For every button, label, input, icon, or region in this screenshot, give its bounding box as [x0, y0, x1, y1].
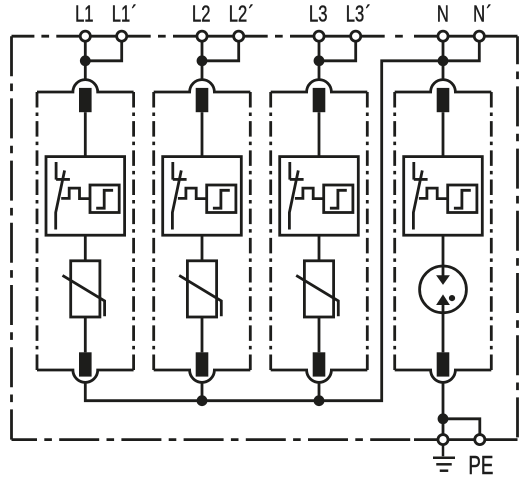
svg-text:PE: PE: [468, 450, 493, 480]
disconnection device box, channel N: [404, 157, 483, 236]
wire: disconnector box to varistor, channel L1: [84, 235, 87, 261]
terminal L2: [197, 31, 207, 41]
svg-text:N: N: [437, 2, 449, 27]
device enclosure border, top edge dot between L2 and L3: [275, 35, 283, 38]
thermal disconnector contact (top), channel N: [437, 88, 450, 112]
trigger step symbol, channel L3: [330, 190, 347, 208]
wire: top bus segment L2/L2&#180;: [173, 35, 268, 38]
mechanical linkage, channel L2: [178, 188, 207, 199]
wire: disconnector box to varistor, channel L2: [201, 235, 204, 261]
wire: fuse to disconnector box, channel L1: [84, 112, 87, 156]
svg-text:L3 ´: L3 ´: [346, 2, 371, 27]
terminal L3: [314, 31, 324, 41]
terminal PE&#180;: [475, 435, 485, 445]
protection module boundary L2: bottom edge with plug-in arc: [154, 370, 251, 382]
wire: varistor to bottom fuse, channel L3: [318, 317, 321, 352]
node: junction dot L2: [197, 55, 208, 66]
thermal disconnector contact (top), channel L3: [313, 88, 326, 112]
protection module boundary N: bottom edge with plug-in arc: [395, 370, 492, 382]
protection module boundary L1: right edge: [132, 92, 135, 370]
node: bus junction dot L2: [197, 395, 208, 406]
disconnection device box, channel L3: [280, 157, 359, 236]
spark gap N-PE: circle: [420, 266, 467, 313]
mechanical linkage, channel N: [419, 188, 448, 199]
disconnector fixed contact, channel N: [412, 162, 415, 180]
device enclosure border, bottom edge: [12, 438, 415, 441]
trigger unit box, channel L2: [207, 185, 236, 213]
wire: L1&#180; terminal branch to junction: [85, 36, 121, 61]
protection module boundary L1: top edge with plug-in arc: [37, 80, 134, 92]
protection module boundary L2: top edge with plug-in arc: [154, 80, 251, 92]
trigger unit box, channel L3: [324, 185, 353, 213]
wire: varistor to bottom fuse, channel L2: [201, 317, 204, 352]
node: bus junction dot L3: [314, 395, 325, 406]
thermal disconnector contact (bottom), channel L2: [196, 352, 209, 376]
wire: branch to PE prime terminal: [443, 419, 480, 440]
wire: fuse to disconnector box, channel L2: [201, 112, 204, 156]
wire: fuse to disconnector box, channel N: [442, 112, 445, 156]
thermal disconnector contact (top), channel L1: [79, 88, 92, 112]
trigger step symbol, channel L2: [213, 190, 230, 208]
terminal N: [438, 31, 448, 41]
disconnector switch blade, channel L3: [289, 170, 298, 229]
svg-text:N ´: N ´: [473, 2, 492, 27]
spark gap N-PE: upper electrode arrow: [436, 275, 450, 285]
wire: top bus segment L1/L1&#180;: [56, 35, 150, 38]
disconnection device box, channel L2: [163, 157, 242, 236]
protection module boundary L2: left edge: [152, 92, 155, 370]
wire: common bus from L1 module bottom to N junction: [85, 61, 443, 401]
protection module boundary N: right edge: [490, 92, 493, 370]
wire: fuse to disconnector box, channel L3: [318, 112, 321, 156]
thermal disconnector contact (bottom), channel N: [437, 352, 450, 376]
trigger unit box, channel N: [448, 185, 477, 213]
wire: top bus segment N/N&#180;: [414, 35, 518, 38]
device enclosure border, top edge dot between L1 and L2: [158, 35, 166, 38]
wire: L1 terminal drop to junction and into module: [84, 36, 87, 80]
disconnection device box, channel L1: [46, 157, 125, 236]
varistor (MOV), channel L2: [187, 261, 216, 317]
svg-text:L2: L2: [192, 2, 210, 27]
spark gap N-PE: lower electrode arrow: [436, 294, 450, 305]
node: junction dot above PE terminal: [438, 413, 449, 424]
disconnector switch blade, channel L1: [56, 170, 65, 229]
ground (earth) symbol: [433, 445, 455, 471]
trigger step symbol, channel L1: [96, 190, 113, 208]
mechanical linkage, channel L3: [295, 188, 324, 199]
wire: spark gap to bottom fuse, channel N: [442, 305, 445, 352]
wire: disconnector box into spark gap, channel N: [442, 235, 445, 276]
terminal L1: [80, 31, 90, 41]
terminal L3&#180;: [351, 31, 361, 41]
wire: L3 module bottom to bus: [318, 383, 321, 401]
disconnector fixed contact, channel L2: [171, 162, 174, 180]
device enclosure border, top edge corner dashes: [12, 35, 50, 38]
wire: varistor to bottom fuse, channel L1: [84, 317, 87, 352]
svg-text:L3: L3: [309, 2, 327, 27]
protection module boundary N: left edge: [393, 92, 396, 370]
protection module boundary L3: right edge: [366, 92, 369, 370]
disconnector contact tick, channel L1: [56, 178, 70, 181]
wire: disconnector box to varistor, channel L3: [318, 235, 321, 261]
wire: N module bottom to PE terminal: [442, 383, 445, 440]
protection module boundary L1: left edge: [36, 92, 39, 370]
wire: L2 terminal drop to junction and into module: [201, 36, 204, 80]
trigger unit box, channel L1: [90, 185, 119, 213]
protection module boundary L3: left edge: [269, 92, 272, 370]
disconnector contact tick, channel N: [414, 178, 428, 181]
wire: L3 terminal drop to junction and into module: [318, 36, 321, 80]
wire: L2&#180; terminal branch to junction: [202, 36, 239, 61]
protection module boundary L1: bottom edge with plug-in arc: [37, 370, 134, 382]
device enclosure border, top edge dot between L3 and N: [395, 35, 403, 38]
svg-text:L1 ´: L1 ´: [112, 2, 137, 27]
svg-text:L1: L1: [75, 2, 93, 27]
terminal PE (ground side): [438, 435, 448, 445]
protection module boundary L2: right edge: [249, 92, 252, 370]
mechanical linkage, channel L1: [61, 188, 90, 199]
thermal disconnector contact (top), channel L2: [196, 88, 209, 112]
thermal disconnector contact (bottom), channel L1: [79, 352, 92, 376]
varistor (MOV), channel L3: [304, 261, 333, 317]
node: junction dot L3: [314, 55, 325, 66]
varistor (MOV), channel L1: [71, 261, 100, 317]
device enclosure border, left edge: [10, 36, 13, 439]
disconnector switch blade, channel N: [413, 170, 422, 229]
device enclosure border, right edge: [516, 36, 519, 439]
terminal L1&#180;: [117, 31, 127, 41]
wire: N&#180; terminal branch to junction: [443, 36, 479, 61]
device enclosure border, bottom edge solid segment at PE: [414, 438, 518, 441]
trigger step symbol, channel N: [454, 190, 471, 208]
disconnector fixed contact, channel L1: [55, 162, 58, 180]
node: junction dot L1: [80, 55, 91, 66]
disconnector contact tick, channel L3: [290, 178, 304, 181]
terminal N&#180;: [474, 31, 484, 41]
disconnector fixed contact, channel L3: [288, 162, 291, 180]
protection module boundary L3: top edge with plug-in arc: [271, 80, 368, 92]
thermal disconnector contact (bottom), channel L3: [313, 352, 326, 376]
terminal L2&#180;: [234, 31, 244, 41]
protection module boundary L3: bottom edge with plug-in arc: [271, 370, 368, 382]
wire: L2 module bottom to bus: [201, 383, 204, 401]
svg-text:L2 ´: L2 ´: [229, 2, 254, 27]
spark gap N-PE: trigger dot: [449, 295, 455, 301]
disconnector contact tick, channel L2: [173, 178, 187, 181]
wire: N terminal drop to junction and into module: [442, 36, 445, 80]
wire: L3&#180; terminal branch to junction: [319, 36, 356, 61]
node: junction dot N: [438, 55, 449, 66]
wire: top bus segment L3/L3&#180;: [290, 35, 385, 38]
disconnector switch blade, channel L2: [172, 170, 181, 229]
protection module boundary N: top edge with plug-in arc: [395, 80, 492, 92]
